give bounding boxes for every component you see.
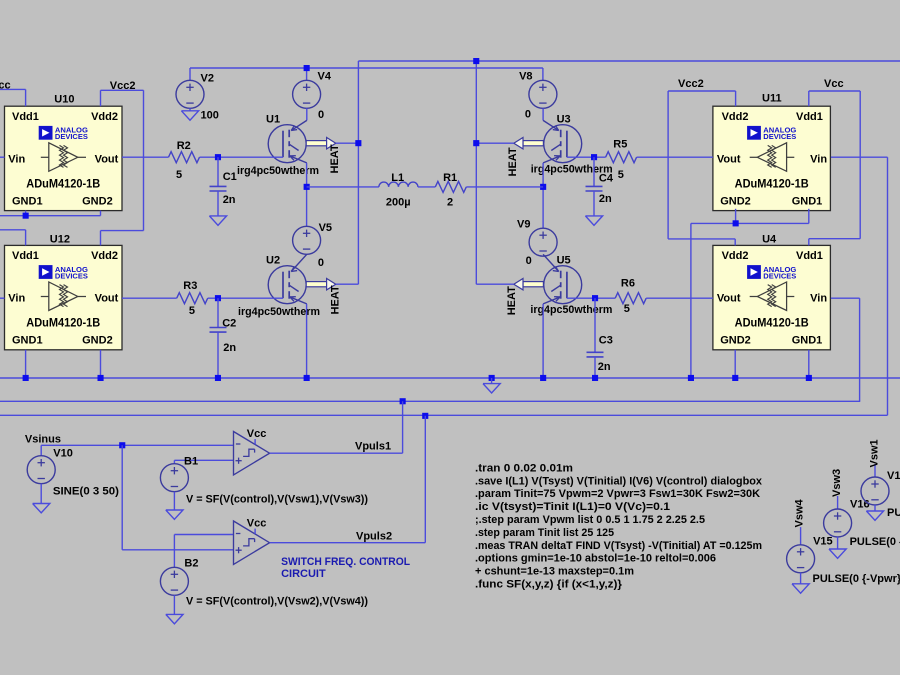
svg-text:B1: B1 (184, 456, 198, 468)
svg-text:ADuM4120-1B: ADuM4120-1B (735, 318, 809, 330)
svg-text:R2: R2 (177, 140, 191, 152)
svg-text:Vdd1: Vdd1 (12, 111, 39, 123)
svg-text:V = SF(V(control),V(Vsw2),V(Vs: V = SF(V(control),V(Vsw2),V(Vsw4)) (186, 596, 368, 608)
svg-text:HEAT: HEAT (506, 286, 518, 315)
svg-text:0: 0 (318, 109, 324, 121)
svg-text:U10: U10 (54, 94, 74, 106)
svg-text:V = SF(V(control),V(Vsw1),V(Vs: V = SF(V(control),V(Vsw1),V(Vsw3)) (186, 494, 368, 506)
svg-text:HEAT: HEAT (330, 285, 342, 314)
svg-text:V15: V15 (813, 535, 833, 547)
svg-text:5: 5 (618, 169, 624, 181)
svg-text:;.step param Vpwm list 0 0.5 1: ;.step param Vpwm list 0 0.5 1 1.75 2 2.… (475, 514, 705, 526)
svg-text:5: 5 (189, 305, 195, 317)
svg-text:U2: U2 (266, 254, 280, 266)
svg-text:ADuM4120-1B: ADuM4120-1B (26, 318, 100, 330)
svg-text:Vin: Vin (810, 293, 827, 305)
svg-text:2n: 2n (223, 342, 236, 354)
svg-text:GND2: GND2 (82, 335, 113, 347)
svg-text:HEAT: HEAT (507, 147, 519, 176)
svg-text:V5: V5 (319, 222, 332, 234)
svg-text:C2: C2 (222, 318, 236, 330)
svg-text:.ic V(tsyst)=Tinit I(L1)=0 V(V: .ic V(tsyst)=Tinit I(L1)=0 V(Vc)=0.1 (475, 501, 670, 513)
svg-text:2: 2 (447, 196, 453, 208)
svg-text:Vdd1: Vdd1 (796, 250, 823, 262)
svg-text:PULSE(0 {Vpwr} 0 1u 1u: PULSE(0 {Vpwr} 0 1u 1u (850, 536, 900, 548)
svg-text:Vout: Vout (95, 153, 119, 165)
svg-text:DEVICES: DEVICES (763, 271, 796, 280)
svg-text:U4: U4 (762, 234, 777, 246)
svg-text:R5: R5 (613, 139, 627, 151)
svg-text:PULSE(0 {Vp: PULSE(0 {Vp (887, 507, 900, 519)
svg-text:GND1: GND1 (12, 335, 43, 347)
svg-text:ADuM4120-1B: ADuM4120-1B (735, 179, 809, 191)
svg-text:Vsw1: Vsw1 (869, 439, 881, 467)
svg-text:0: 0 (526, 255, 532, 267)
svg-text:V4: V4 (318, 71, 332, 83)
svg-text:2n: 2n (598, 361, 611, 373)
svg-text:Vpuls1: Vpuls1 (355, 441, 391, 453)
svg-text:V16: V16 (850, 498, 870, 510)
svg-text:Vdd2: Vdd2 (91, 250, 118, 262)
svg-text:Vcc: Vcc (824, 78, 844, 90)
svg-text:SWITCH FREQ. CONTROL: SWITCH FREQ. CONTROL (281, 556, 410, 568)
svg-text:0: 0 (318, 257, 324, 269)
svg-text:200µ: 200µ (386, 196, 411, 208)
svg-text:ADuM4120-1B: ADuM4120-1B (26, 179, 100, 191)
svg-text:Vout: Vout (717, 293, 741, 305)
svg-text:Vcc2: Vcc2 (678, 78, 704, 90)
svg-text:Vpuls2: Vpuls2 (356, 531, 392, 543)
svg-text:Vdd1: Vdd1 (796, 111, 823, 123)
svg-text:C4: C4 (599, 173, 614, 185)
svg-text:.step param Tinit list 25 125: .step param Tinit list 25 125 (475, 527, 614, 539)
svg-text:U11: U11 (762, 93, 782, 105)
svg-text:DEVICES: DEVICES (55, 271, 88, 280)
svg-text:U5: U5 (557, 254, 571, 266)
svg-text:DEVICES: DEVICES (55, 132, 88, 141)
svg-text:Vdd2: Vdd2 (722, 111, 749, 123)
svg-text:GND1: GND1 (792, 335, 823, 347)
svg-text:DEVICES: DEVICES (763, 132, 796, 141)
svg-text:HEAT: HEAT (329, 144, 341, 173)
svg-text:Vdd2: Vdd2 (722, 250, 749, 262)
svg-text:.tran 0 0.02 0.01m: .tran 0 0.02 0.01m (475, 462, 573, 474)
svg-text:GND2: GND2 (720, 335, 751, 347)
svg-text:0: 0 (525, 109, 531, 121)
svg-text:V8: V8 (519, 71, 532, 83)
svg-text:.options gmin=1e-10 abstol=1e-: .options gmin=1e-10 abstol=1e-10 reltol=… (475, 553, 716, 565)
svg-text:V17: V17 (887, 470, 900, 482)
svg-text:CIRCUIT: CIRCUIT (281, 568, 326, 580)
svg-text:.save I(L1) V(Tsyst) V(Tinitia: .save I(L1) V(Tsyst) V(Tinitial) I(V6) V… (475, 475, 762, 487)
svg-text:Vdd2: Vdd2 (91, 111, 118, 123)
svg-text:Vdd1: Vdd1 (12, 250, 39, 262)
svg-text:V9: V9 (517, 219, 530, 231)
svg-text:+ cshunt=1e-13 maxstep=0.1m: + cshunt=1e-13 maxstep=0.1m (475, 566, 634, 578)
svg-text:V2: V2 (201, 72, 214, 84)
svg-text:R1: R1 (443, 172, 457, 184)
svg-text:Vin: Vin (810, 153, 827, 165)
svg-text:100: 100 (201, 109, 219, 121)
svg-text:R3: R3 (183, 280, 197, 292)
svg-text:SINE(0 3 50): SINE(0 3 50) (53, 486, 119, 498)
svg-text:.meas TRAN deltaT FIND V(Tsyst: .meas TRAN deltaT FIND V(Tsyst) -V(Tinit… (475, 540, 762, 552)
svg-text:L1: L1 (391, 172, 404, 184)
svg-text:Vcc: Vcc (0, 79, 11, 91)
svg-text:U12: U12 (50, 233, 70, 245)
svg-text:.param Tinit=75 Vpwm=2 Vpwr=3: .param Tinit=75 Vpwm=2 Vpwr=3 Fsw1=30K F… (475, 488, 760, 500)
svg-text:Vin: Vin (8, 153, 25, 165)
svg-text:2n: 2n (599, 193, 612, 205)
svg-text:5: 5 (176, 169, 182, 181)
svg-text:Vcc: Vcc (247, 428, 267, 440)
svg-text:Vsw3: Vsw3 (831, 469, 843, 497)
svg-text:C1: C1 (223, 171, 237, 183)
svg-text:Vout: Vout (95, 293, 119, 305)
svg-text:Vcc: Vcc (247, 518, 267, 530)
svg-text:C3: C3 (599, 335, 613, 347)
svg-text:GND2: GND2 (82, 195, 113, 207)
svg-text:PULSE(0 {-Vpwr} {Vpwr} 1u 1u {: PULSE(0 {-Vpwr} {Vpwr} 1u 1u {0.5/Fsw2} (813, 573, 900, 585)
svg-text:GND2: GND2 (720, 195, 751, 207)
svg-text:Vsinus: Vsinus (25, 434, 61, 446)
svg-text:Vin: Vin (8, 293, 25, 305)
svg-text:U3: U3 (557, 113, 571, 125)
svg-text:Vcc2: Vcc2 (110, 80, 136, 92)
svg-text:GND1: GND1 (12, 195, 43, 207)
svg-text:2n: 2n (223, 194, 236, 206)
svg-text:U1: U1 (266, 113, 280, 125)
svg-text:GND1: GND1 (792, 195, 823, 207)
svg-text:5: 5 (624, 303, 630, 315)
svg-text:Vout: Vout (717, 153, 741, 165)
svg-text:Vsw4: Vsw4 (794, 498, 806, 527)
svg-text:.func SF(x,y,z) {if (x<1,y,z): .func SF(x,y,z) {if (x<1,y,z)} (475, 579, 622, 591)
svg-text:V10: V10 (53, 447, 73, 459)
svg-text:irg4pc50wtherm: irg4pc50wtherm (238, 306, 320, 318)
svg-text:R6: R6 (621, 277, 635, 289)
svg-text:B2: B2 (184, 558, 198, 570)
